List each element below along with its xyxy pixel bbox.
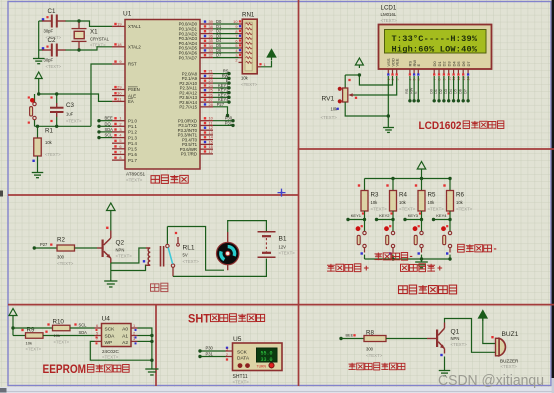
svg-text:3: 3 [226,346,228,351]
svg-text:6: 6 [96,323,98,328]
svg-text:9: 9 [119,59,121,64]
wire ground rail to relay coil bottom [111,265,146,271]
svg-text:1: 1 [264,62,266,67]
power terminal pump [107,203,116,231]
svg-text:<TEXT>: <TEXT> [54,340,70,345]
wire P31 net [213,121,235,128]
lcd LM016L body [379,25,492,70]
svg-text:EA: EA [128,99,134,104]
right edge scrollbar strip [552,0,554,393]
wire RN1 pin1 to power [257,61,271,68]
svg-text:RL1: RL1 [183,245,195,252]
svg-text:-: - [494,244,497,255]
wires P1.0-P1.3 net labels BEE DQ SDA SCL [97,116,113,140]
wire relay contact to battery bottom [173,259,266,277]
svg-text:P3.7/RD: P3.7/RD [181,152,197,157]
svg-text:X1: X1 [90,29,98,36]
bottom margin strip [0,387,554,393]
svg-text:24C02C: 24C02C [102,349,120,354]
wires A0 A1 A2 tie [138,328,154,369]
ground below R1 [32,173,44,178]
power terminal lcd VCC [355,58,363,77]
svg-text:R6: R6 [456,192,464,199]
svg-text:12V: 12V [279,245,287,250]
svg-text:10k: 10k [399,200,407,205]
wire P30 terminal to SCK [198,345,232,352]
eeprom U4 pin stubs [95,323,138,345]
svg-text:AT89C51: AT89C51 [126,172,146,177]
buzzer BUZ1 [491,331,519,369]
svg-text:XTAL1: XTAL1 [128,24,141,29]
svg-text:2: 2 [119,121,121,126]
svg-text:<TEXT>: <TEXT> [399,207,416,212]
resistor R8 [364,330,386,358]
svg-text:R10: R10 [53,319,65,326]
svg-text:P2.7/A15: P2.7/A15 [179,105,197,110]
sht11 U5 body [226,336,282,385]
svg-text:<TEXT>: <TEXT> [66,119,82,124]
svg-text:P1.6: P1.6 [128,152,137,157]
caption lower-limit-plus (下限数据+) [327,263,370,274]
power terminal buzzer [479,311,496,344]
ground pump [104,281,117,287]
wire R8 to Q1 base [386,338,436,340]
power terminal eeprom [9,309,17,336]
lcd pin labels and stubs [386,58,471,81]
svg-text:P1.1: P1.1 [128,124,137,129]
svg-text:P1.0: P1.0 [128,118,137,123]
wire Q1 collector to buzzer [445,319,496,353]
resistor network RN1 [235,12,257,88]
wires KEY1-4 terminals [346,212,451,221]
ground lcd [383,128,394,133]
svg-text:R3: R3 [371,192,379,199]
capacitor C1 [39,8,79,40]
caption lower-limit-minus (下限数据-) [375,251,413,262]
svg-text:U4: U4 [102,316,111,323]
svg-text:VEE: VEE [395,58,400,66]
power terminal RN1 [267,50,276,61]
svg-text:5: 5 [119,138,121,143]
wires lcd RS RW E D0-D7 nets [404,76,470,103]
svg-text:R1: R1 [45,128,53,135]
svg-text:P31: P31 [225,121,233,126]
svg-text:E: E [413,91,418,94]
svg-text:WP: WP [105,340,113,346]
svg-text:17: 17 [209,149,213,154]
svg-text:P27: P27 [217,102,225,107]
node XTAL1 junction [77,19,80,22]
ground buzzer [439,371,451,376]
caption SHT sensor (SHT温湿度传感器) [188,311,265,325]
sheet edge markers [0,191,7,393]
svg-text:+: + [437,263,443,274]
svg-text:<TEXT>: <TEXT> [45,152,61,157]
resistor R2 [57,237,75,267]
svg-text:-: - [410,251,413,262]
wire lcd VEE to wiper [352,76,397,95]
svg-text:High:60% LOW:40%: High:60% LOW:40% [392,45,478,55]
power terminal keys [417,162,426,179]
svg-text:<TEXT>: <TEXT> [371,207,388,212]
svg-text:SCK: SCK [105,327,116,333]
svg-text:+: + [364,263,370,274]
svg-text:<TEXT>: <TEXT> [381,18,398,23]
wire RST vertical [91,64,112,126]
wire RST node y126 [35,125,92,128]
svg-text:ALE: ALE [128,93,136,98]
transistor Q1 [436,323,467,357]
svg-text:10k: 10k [54,333,60,338]
svg-text:2: 2 [226,352,228,357]
svg-text:10k: 10k [45,140,53,145]
svg-text:19: 19 [117,21,121,26]
svg-text:D7: D7 [462,89,467,94]
watermark [438,372,544,389]
svg-text:C1: C1 [48,8,56,15]
svg-text:SCL: SCL [79,323,88,328]
push button reset [28,94,37,126]
wire lcd VSS to ground rail [387,76,389,116]
svg-text:<TEXT>: <TEXT> [233,380,250,385]
push buttons keys [356,220,452,260]
svg-text:P31: P31 [206,351,214,356]
svg-text:10k: 10k [428,200,436,205]
svg-text:<TEXT>: <TEXT> [116,254,133,259]
caption main-chip (主控芯片) [151,175,188,183]
svg-text:RST: RST [128,62,137,67]
svg-text:P0.7/AD7: P0.7/AD7 [179,55,198,60]
svg-text:NPN: NPN [116,248,125,253]
svg-text:C3: C3 [66,102,74,109]
svg-text:33.0: 33.0 [260,357,272,363]
svg-text:T:33°C-----H:39%: T:33°C-----H:39% [392,34,478,44]
crystal X1 [72,21,110,50]
wires P0 to RN1 with D0-D7 labels [213,19,242,58]
svg-text:<TEXT>: <TEXT> [456,207,473,212]
U1 right pin stubs and labels [178,19,214,157]
svg-text:KEY3: KEY3 [408,213,419,218]
ground below C1 C2 [33,58,45,64]
svg-text:10k: 10k [456,200,464,205]
svg-text:10k: 10k [241,76,249,81]
section divider horizontal bottom [8,304,554,306]
svg-text:R4: R4 [399,192,407,199]
svg-text:U5: U5 [233,336,242,343]
svg-text:7: 7 [96,336,98,341]
svg-text:KEY4: KEY4 [436,213,447,218]
capacitor C2 [39,37,79,69]
svg-text:RV1: RV1 [322,96,335,103]
svg-text:3: 3 [119,127,121,132]
svg-text:30pF: 30pF [44,58,54,63]
wire WP loop [90,341,152,360]
svg-text:55.0: 55.0 [260,351,272,357]
lcd screen text [392,34,478,54]
resistor R10 [13,319,95,345]
svg-text:P1.2: P1.2 [128,130,137,135]
svg-text:30pF: 30pF [44,29,54,34]
svg-text:SDA: SDA [105,127,114,132]
svg-text:LCD1602: LCD1602 [419,120,462,132]
battery B1 [258,232,296,257]
svg-text:D7: D7 [466,61,471,67]
svg-text:SCL: SCL [105,133,114,138]
svg-text:<TEXT>: <TEXT> [428,207,445,212]
svg-text:U1: U1 [123,11,132,18]
svg-text:SDA: SDA [105,334,116,340]
wire BEE terminal to R8 [339,334,364,340]
svg-text:5V: 5V [183,253,188,258]
wire emitter to relay coil top [111,248,146,263]
svg-text:10k: 10k [26,341,32,346]
wire P31 terminal to DATA [198,351,232,360]
svg-text:KEY1: KEY1 [351,213,362,218]
svg-text:5: 5 [96,330,98,335]
svg-text:SCK: SCK [237,350,248,356]
U1 left pin stubs and labels [112,21,141,162]
svg-text:DQ: DQ [105,121,111,126]
svg-text:C2: C2 [48,37,56,44]
svg-text:<TEXT>: <TEXT> [451,342,468,347]
relay RL1 coil [143,246,164,267]
motor pump [217,232,239,270]
svg-text:R8: R8 [366,330,374,337]
svg-text:P1.4: P1.4 [128,141,137,146]
svg-text:1: 1 [133,323,135,328]
svg-text:P30: P30 [206,345,214,350]
svg-text:BUZ1: BUZ1 [502,331,519,338]
svg-text:Q2: Q2 [116,240,125,247]
svg-text:D7: D7 [216,53,222,58]
caption EEPROM storage circuit (EEPROM存储器电路) [43,362,130,376]
svg-text:KEY2: KEY2 [379,213,390,218]
svg-text:R2: R2 [57,237,65,244]
section divider horizontal right (LCD/keys) [298,148,554,150]
svg-text:6: 6 [119,144,121,149]
svg-text:<TEXT>: <TEXT> [126,178,143,183]
svg-text:7: 7 [119,149,121,154]
svg-text:E: E [416,64,421,67]
svg-text:CSDN @xitianqu: CSDN @xitianqu [438,372,544,389]
resistor R9 [13,327,95,352]
svg-text:A2: A2 [122,340,128,346]
caption function-key-circuit (功能按键电路) [399,285,457,294]
svg-text:A0: A0 [122,327,128,333]
caption upper-limit-minus (上限数据-) [458,244,497,255]
ground eeprom [145,369,158,375]
svg-text:BEE: BEE [346,334,354,338]
svg-text:XTAL2: XTAL2 [128,45,141,50]
lcd LCD1 labels [381,5,398,24]
svg-text:RN1: RN1 [242,12,255,19]
mcu U1 body [123,11,200,183]
svg-text:2: 2 [235,58,237,63]
svg-text:29: 29 [117,85,121,90]
power terminal VCC reset [35,72,42,82]
wire keys ground bus [365,257,452,262]
wire keys vcc bus [365,177,452,180]
svg-text:DATA: DATA [237,356,250,362]
svg-text:<TEXT>: <TEXT> [26,347,42,352]
svg-text:SHT: SHT [188,311,211,325]
svg-text:<TEXT>: <TEXT> [46,64,62,69]
section divider vertical center [298,0,300,386]
svg-text:32: 32 [209,53,213,58]
origin marker [278,189,286,197]
svg-text:<TEXT>: <TEXT> [241,82,258,87]
wire R2 to Q2 base [75,247,102,249]
transistor Q2 [102,227,133,263]
wire P27 terminal pump [33,242,57,250]
svg-text:300: 300 [57,255,65,260]
wire VCC to node y94 [38,82,40,95]
caption LCD1602 display (LCD1602液晶显示器) [419,120,504,132]
svg-text:10k: 10k [371,200,379,205]
svg-text:NPN: NPN [451,336,460,341]
svg-text:TURN: TURN [257,364,267,368]
svg-text:1uF: 1uF [66,112,74,117]
wire SCL net label [79,323,88,328]
svg-text:<TEXT>: <TEXT> [321,115,338,120]
wire Q1 emitter to ground [444,357,446,371]
wire relay pole to motor bottom [167,227,224,271]
wire Q2 emitter to ground [110,263,112,281]
svg-text:<TEXT>: <TEXT> [501,364,518,369]
wire SDA net label [79,330,88,335]
wire crystal to XTAL1 [79,21,112,26]
svg-text:A1: A1 [122,334,128,340]
section divider vertical bottom-left (EEPROM/SHT) [155,305,157,386]
svg-text:31: 31 [117,96,121,101]
svg-text:PSEN: PSEN [128,87,140,92]
svg-text:300: 300 [366,347,374,352]
svg-text:LM016L: LM016L [381,12,397,17]
wire P27 net [213,102,229,117]
svg-text:<TEXT>: <TEXT> [279,251,296,256]
relay RL1 switch [166,227,200,268]
svg-text:Q1: Q1 [451,329,460,336]
svg-text:BUZZER: BUZZER [500,359,519,364]
wire VCC rail y94 to EA [37,92,112,101]
section divider horizontal left (MCU/pump) [8,194,299,196]
svg-text:P1.7: P1.7 [128,158,137,163]
resistor R1 [32,126,61,172]
svg-text:<TEXT>: <TEXT> [183,259,200,264]
svg-text:SDA: SDA [79,330,88,335]
eeprom U4 body [102,316,132,360]
svg-text:P1.3: P1.3 [128,135,137,140]
svg-text:1: 1 [119,116,121,121]
svg-text:8: 8 [119,155,121,160]
svg-text:P1.5: P1.5 [128,147,137,152]
wire C1-C2 left vertical [39,18,45,57]
ground keys [415,262,428,268]
wire motor top to battery top [228,221,267,232]
svg-text:3: 3 [133,336,135,341]
svg-text:P27: P27 [40,242,48,247]
svg-text:<TEXT>: <TEXT> [57,261,74,266]
svg-text:BEE: BEE [105,116,113,121]
wires P2 RS RW E KEY1-4 [213,69,231,104]
node XTAL2 junction [77,48,80,51]
caption water-pump (水泵) [151,283,168,291]
resistor group R3-R6 [358,179,473,220]
wire RV1 bottom to ground [345,102,390,128]
svg-text:18: 18 [117,42,121,47]
svg-text:B1: B1 [279,236,287,243]
svg-text:2: 2 [133,330,135,335]
svg-text:28: 28 [209,102,213,107]
svg-text:CRYSTAL: CRYSTAL [90,37,110,42]
potentiometer RV1 [321,75,360,120]
wire crystal to XTAL2 [79,47,112,50]
caption upper-limit-plus (上限数据+) [401,263,444,274]
capacitor C3 [50,94,82,126]
wire lcd VDD to vcc [359,75,392,85]
svg-text:EEPROM: EEPROM [43,362,87,376]
svg-text:R5: R5 [428,192,436,199]
wire P30 net [213,116,235,123]
svg-text:<TEXT>: <TEXT> [102,355,119,360]
svg-text:<TEXT>: <TEXT> [366,353,383,358]
svg-text:LCD1: LCD1 [381,5,397,12]
caption buzzer-alarm-circuit (蜂鸣器报警电路) [349,363,405,370]
